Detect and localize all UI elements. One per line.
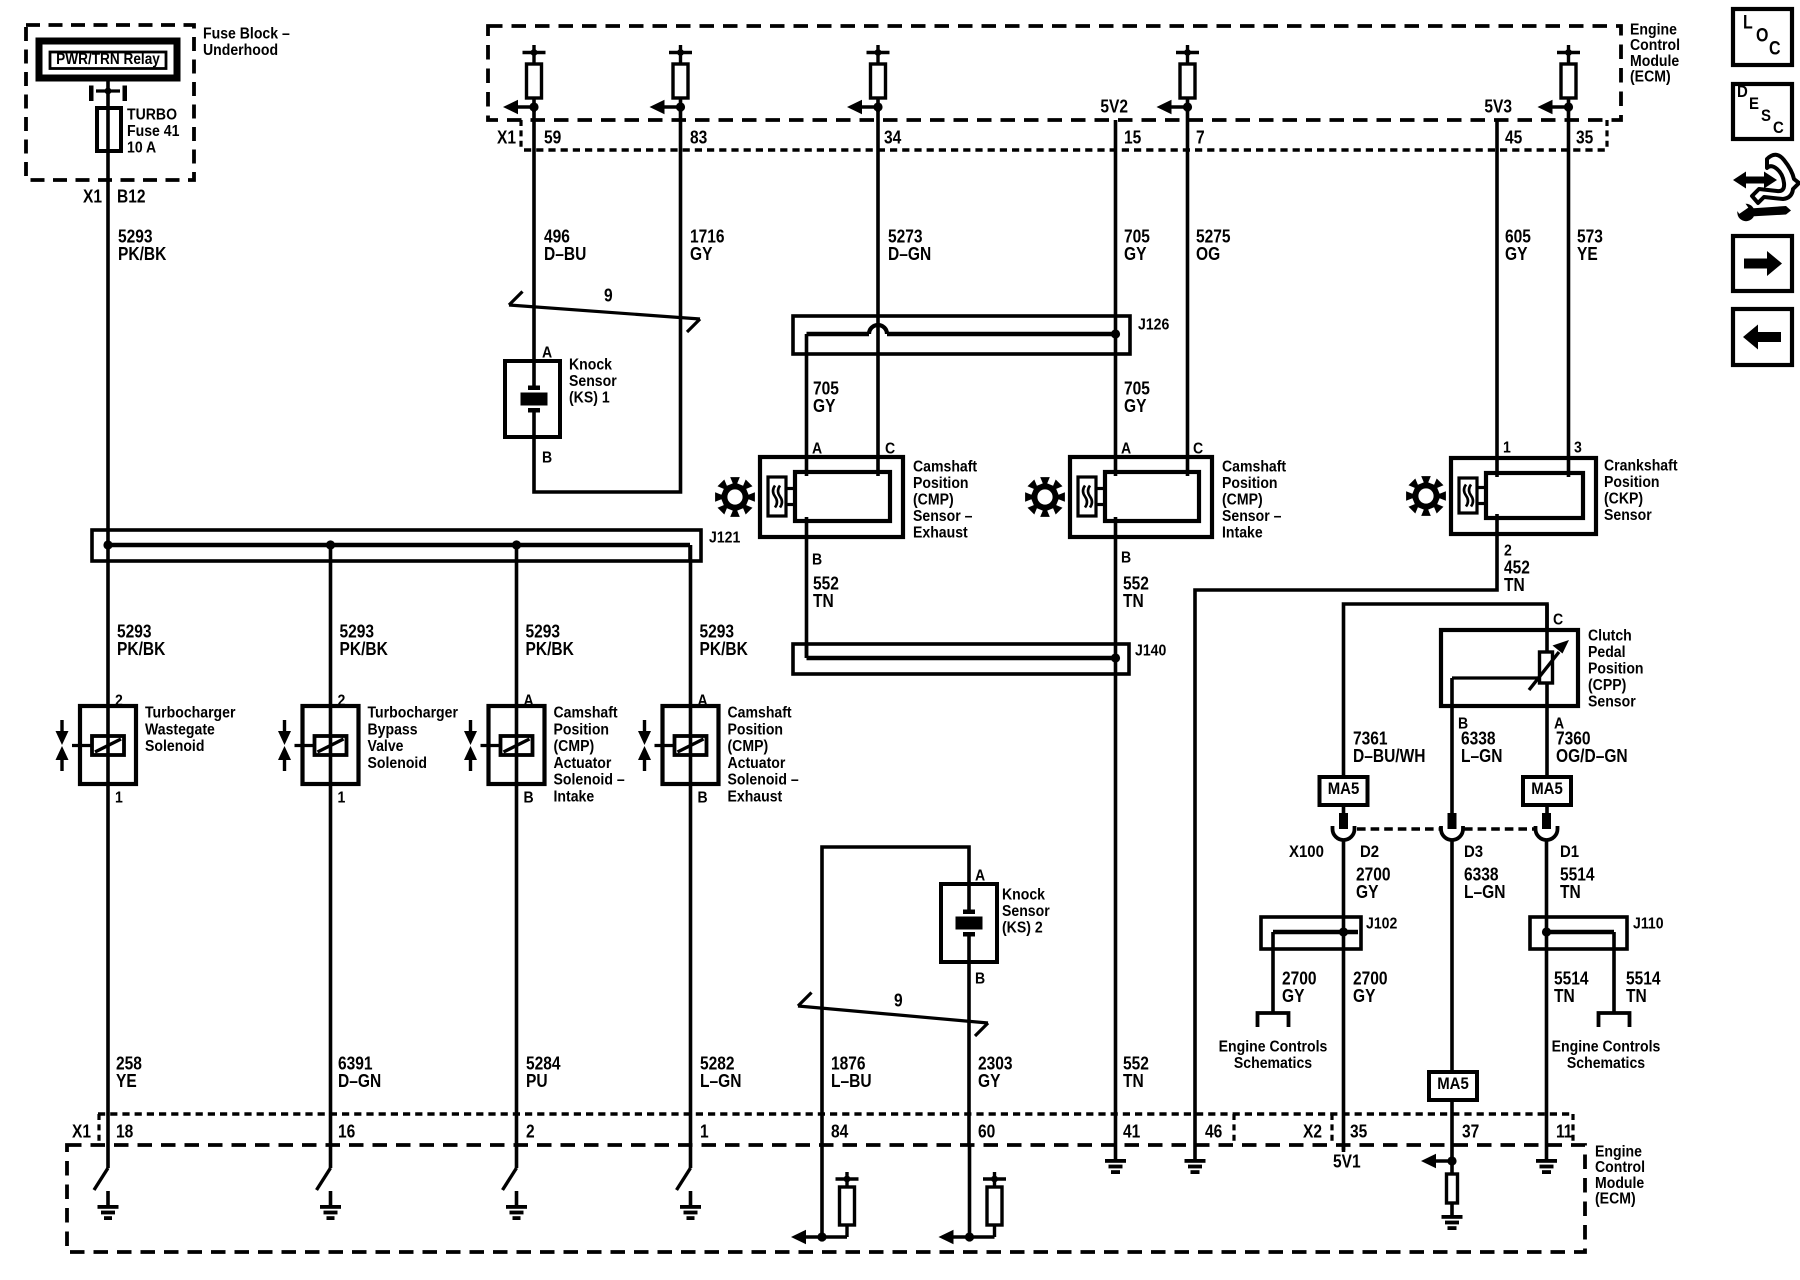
label D3 bbox=[1464, 843, 1483, 861]
label 5V3 bbox=[1484, 96, 1512, 117]
svg-text:(ECM): (ECM) bbox=[1595, 1190, 1636, 1208]
pin 35 label (ECM bottom) bbox=[1350, 1121, 1368, 1142]
svg-text:41: 41 bbox=[1123, 1121, 1141, 1142]
camshaft position CMP actuator solenoid intake bbox=[464, 692, 625, 807]
MA5 box (D3 wire) bbox=[1429, 1072, 1477, 1100]
svg-text:GY: GY bbox=[1282, 986, 1305, 1007]
ECM internal driver at pin 59 bbox=[503, 45, 546, 114]
wire 2700 GY X100 D2 to J102 and pin X2-35 bbox=[1344, 841, 1391, 1150]
clutch pedal position CPP sensor bbox=[1441, 604, 1644, 733]
svg-text:D: D bbox=[1737, 83, 1748, 101]
wire 5275 OG pin 7 to CMP intake C bbox=[1188, 107, 1232, 457]
wire 258 YE solenoid to pin 18 bbox=[108, 784, 142, 1145]
pin 83 label (ECM top) bbox=[690, 127, 707, 148]
svg-text:TN: TN bbox=[1504, 575, 1525, 596]
svg-text:GY: GY bbox=[1124, 396, 1147, 417]
svg-text:B12: B12 bbox=[117, 186, 146, 207]
svg-text:B: B bbox=[1121, 549, 1131, 567]
svg-text:Position: Position bbox=[728, 720, 784, 738]
svg-text:11: 11 bbox=[1556, 1121, 1573, 1142]
svg-text:Sensor –: Sensor – bbox=[1222, 507, 1281, 525]
ECM top connector pin row bbox=[521, 120, 1607, 150]
svg-text:PU: PU bbox=[526, 1071, 548, 1092]
svg-text:D–BU: D–BU bbox=[544, 244, 586, 265]
svg-text:Bypass: Bypass bbox=[368, 720, 418, 738]
ECM internal ground at x1115 bbox=[1105, 1145, 1126, 1174]
icon data link arrows and wrench bbox=[1733, 155, 1799, 221]
label D1 bbox=[1560, 843, 1579, 861]
ECM internal driver at pin 7 bbox=[1157, 45, 1200, 114]
off-page connector (right schematics) bbox=[1599, 1013, 1630, 1027]
pin 59 label (ECM top) bbox=[544, 127, 561, 148]
pin 41 label (ECM bottom) bbox=[1123, 1121, 1141, 1142]
svg-text:TN: TN bbox=[1560, 882, 1581, 903]
svg-text:D3: D3 bbox=[1464, 843, 1483, 861]
svg-text:PK/BK: PK/BK bbox=[340, 639, 389, 660]
ECM bottom connector pin row bbox=[98, 1114, 1573, 1145]
label Engine Control Module (ECM) top bbox=[1630, 21, 1680, 86]
svg-text:YE: YE bbox=[1577, 244, 1598, 265]
note 9 marker (KS1 wires) bbox=[509, 285, 700, 332]
pin 60 label (ECM bottom) bbox=[978, 1121, 995, 1142]
icon LOC bbox=[1733, 9, 1792, 65]
svg-text:GY: GY bbox=[978, 1071, 1001, 1092]
svg-text:B: B bbox=[542, 449, 552, 467]
wire 7360 OG/D-GN CPP A to MA5 bbox=[1547, 706, 1628, 777]
camshaft position CMP sensor intake bbox=[1070, 440, 1286, 567]
svg-text:2: 2 bbox=[338, 692, 346, 710]
engine control module ECM bottom dashed box bbox=[67, 1145, 1585, 1252]
svg-text:Schematics: Schematics bbox=[1234, 1054, 1312, 1072]
svg-text:A: A bbox=[812, 440, 822, 458]
ECM internal ground at x108 bbox=[94, 1145, 119, 1220]
svg-text:B: B bbox=[524, 789, 534, 807]
svg-text:Schematics: Schematics bbox=[1567, 1054, 1645, 1072]
svg-text:84: 84 bbox=[831, 1121, 849, 1142]
splice J121 bbox=[92, 529, 740, 561]
wire 6338 L-GN CPP B to X100 D3 bbox=[1452, 706, 1502, 813]
svg-text:C: C bbox=[1773, 119, 1784, 137]
wire 452 TN CKP 2 to pin 46 bbox=[1195, 534, 1530, 1145]
svg-text:YE: YE bbox=[116, 1071, 137, 1092]
svg-text:2: 2 bbox=[526, 1121, 535, 1142]
svg-text:X1: X1 bbox=[72, 1121, 91, 1142]
ECM internal pin 37 pull-down bbox=[1421, 1145, 1463, 1230]
gear icon (CMP intake) bbox=[1025, 477, 1065, 517]
svg-text:Wastegate: Wastegate bbox=[145, 720, 215, 738]
connector X100 terminal D3 bbox=[1441, 813, 1463, 840]
svg-text:D1: D1 bbox=[1560, 843, 1579, 861]
icon arrow left bbox=[1733, 309, 1792, 365]
svg-text:B: B bbox=[975, 970, 985, 988]
MA5 box (D2 wire) bbox=[1320, 777, 1368, 805]
wire 5282 L-GN solenoid to pin 1 bbox=[691, 784, 742, 1145]
label X2 (ECM bottom) bbox=[1303, 1121, 1322, 1142]
svg-text:(CMP): (CMP) bbox=[1222, 491, 1263, 509]
svg-text:TN: TN bbox=[1626, 986, 1647, 1007]
svg-text:C: C bbox=[885, 440, 895, 458]
relay PWR/TRN Relay bbox=[39, 41, 177, 78]
svg-text:(ECM): (ECM) bbox=[1630, 68, 1671, 86]
pin 35 label (ECM top) bbox=[1576, 127, 1594, 148]
splice J140 bbox=[793, 642, 1166, 674]
svg-text:C: C bbox=[1193, 440, 1203, 458]
svg-text:Solenoid: Solenoid bbox=[145, 737, 204, 755]
svg-text:C: C bbox=[1553, 611, 1563, 629]
note 9 marker (KS2 wires) bbox=[798, 990, 988, 1036]
svg-text:GY: GY bbox=[1353, 986, 1376, 1007]
svg-text:16: 16 bbox=[338, 1121, 355, 1142]
svg-text:1: 1 bbox=[115, 789, 123, 807]
svg-text:TN: TN bbox=[1554, 986, 1575, 1007]
knock sensor KS2 bbox=[941, 867, 1050, 988]
label Fuse Block - Underhood bbox=[203, 25, 290, 60]
fuse TURBO Fuse 41 10 A bbox=[97, 106, 179, 157]
svg-text:MA5: MA5 bbox=[1437, 1075, 1469, 1093]
gear icon (CKP) bbox=[1406, 476, 1446, 516]
svg-text:(CKP): (CKP) bbox=[1604, 490, 1643, 508]
svg-text:34: 34 bbox=[884, 127, 902, 148]
pin 37 label (ECM bottom) bbox=[1462, 1121, 1479, 1142]
svg-text:A: A bbox=[698, 692, 708, 710]
pin 34 label (ECM top) bbox=[884, 127, 902, 148]
svg-text:D2: D2 bbox=[1360, 843, 1379, 861]
svg-text:Turbocharger: Turbocharger bbox=[145, 704, 236, 722]
pin 2 label (ECM bottom) bbox=[526, 1121, 535, 1142]
svg-text:L–GN: L–GN bbox=[1461, 746, 1502, 767]
label Engine Controls Schematics left bbox=[1219, 1038, 1328, 1073]
svg-text:J102: J102 bbox=[1366, 915, 1397, 933]
wire 1716 GY pin 83 to KS1 B bbox=[534, 107, 725, 492]
label Engine Control Module (ECM) bottom bbox=[1595, 1143, 1645, 1208]
svg-text:PK/BK: PK/BK bbox=[526, 639, 575, 660]
fuse block - underhood dashed box bbox=[26, 25, 194, 180]
wire 2700 GY J102 branch to schematics bbox=[1273, 949, 1317, 1013]
svg-text:PK/BK: PK/BK bbox=[700, 639, 749, 660]
label D2 bbox=[1360, 843, 1379, 861]
wire 552 TN CMP exhaust B to J140 bbox=[807, 537, 839, 658]
camshaft position CMP sensor exhaust bbox=[760, 440, 977, 569]
label 5V2 bbox=[1100, 96, 1128, 117]
svg-text:Clutch: Clutch bbox=[1588, 627, 1632, 645]
wire 1876 L-BU KS2 A to pin 84 bbox=[822, 847, 969, 1145]
svg-text:Actuator: Actuator bbox=[728, 754, 786, 772]
svg-text:Solenoid: Solenoid bbox=[368, 754, 427, 772]
connector X100 terminal D1 bbox=[1536, 813, 1558, 840]
label 5V1 bbox=[1333, 1151, 1361, 1172]
svg-text:B: B bbox=[698, 789, 708, 807]
pin 16 label (ECM bottom) bbox=[338, 1121, 355, 1142]
MA5 box (D1 wire) bbox=[1523, 777, 1571, 805]
label wire 5293 PK/BK (fuse) bbox=[118, 226, 167, 264]
svg-text:5V1: 5V1 bbox=[1333, 1151, 1361, 1172]
off-page connector (left schematics) bbox=[1258, 1013, 1289, 1027]
svg-text:X1: X1 bbox=[83, 186, 102, 207]
svg-text:9: 9 bbox=[604, 285, 613, 306]
ECM internal pull-up at x822 bbox=[791, 1145, 859, 1244]
svg-text:Sensor: Sensor bbox=[569, 372, 617, 390]
wire 496 D-BU pin 59 to KS1 bbox=[534, 107, 586, 361]
svg-text:GY: GY bbox=[1356, 882, 1379, 903]
svg-text:(KS) 2: (KS) 2 bbox=[1002, 919, 1043, 937]
svg-text:Camshaft: Camshaft bbox=[554, 704, 618, 722]
ECM internal ground at x1546 bbox=[1536, 1145, 1557, 1174]
gear icon (CMP exhaust) bbox=[715, 477, 755, 517]
svg-text:Valve: Valve bbox=[368, 737, 404, 755]
svg-text:S: S bbox=[1761, 107, 1771, 125]
wire 5284 PU solenoid to pin 2 bbox=[517, 784, 562, 1145]
svg-text:L: L bbox=[1743, 11, 1753, 33]
svg-text:C: C bbox=[1769, 37, 1781, 59]
label X100 bbox=[1289, 843, 1324, 861]
svg-text:(CMP): (CMP) bbox=[554, 737, 595, 755]
svg-text:15: 15 bbox=[1124, 127, 1142, 148]
svg-text:TN: TN bbox=[813, 591, 834, 612]
pin 15 label (ECM top) bbox=[1124, 127, 1142, 148]
pin 1 label (ECM bottom) bbox=[700, 1121, 709, 1142]
svg-text:GY: GY bbox=[813, 396, 836, 417]
svg-text:5V3: 5V3 bbox=[1484, 96, 1512, 117]
pin 11 label (ECM bottom) bbox=[1556, 1121, 1573, 1142]
wire from relay through fuse to J121 bbox=[106, 75, 110, 530]
label X1 (ECM bottom) bbox=[72, 1121, 91, 1142]
svg-text:1: 1 bbox=[1503, 439, 1511, 457]
svg-text:Position: Position bbox=[554, 720, 610, 738]
svg-text:Sensor: Sensor bbox=[1002, 902, 1050, 920]
ECM internal pull-up at x969 bbox=[939, 1145, 1007, 1244]
wire 6338 L-GN X100 D3 to MA5 and pin 37 bbox=[1452, 841, 1505, 1145]
pin 84 label (ECM bottom) bbox=[831, 1121, 849, 1142]
svg-text:D–BU/WH: D–BU/WH bbox=[1353, 746, 1425, 767]
svg-text:L–GN: L–GN bbox=[700, 1071, 741, 1092]
splice J110 bbox=[1530, 915, 1664, 949]
svg-text:GY: GY bbox=[1124, 244, 1147, 265]
pin 45 label (ECM top) bbox=[1505, 127, 1523, 148]
svg-text:Actuator: Actuator bbox=[554, 754, 612, 772]
splice J102 bbox=[1261, 915, 1397, 949]
svg-text:59: 59 bbox=[544, 127, 561, 148]
svg-text:Position: Position bbox=[913, 474, 969, 492]
svg-text:A: A bbox=[524, 692, 534, 710]
svg-text:MA5: MA5 bbox=[1531, 780, 1563, 798]
svg-text:Knock: Knock bbox=[1002, 886, 1046, 904]
svg-text:(CPP): (CPP) bbox=[1588, 676, 1626, 694]
svg-text:PK/BK: PK/BK bbox=[117, 639, 166, 660]
svg-text:X100: X100 bbox=[1289, 843, 1324, 861]
svg-text:D–GN: D–GN bbox=[338, 1071, 381, 1092]
svg-text:9: 9 bbox=[894, 990, 903, 1011]
wire 552 TN CMP intake B through J140 to pin 41 bbox=[1116, 537, 1149, 1145]
svg-text:Position: Position bbox=[1222, 474, 1278, 492]
svg-text:B: B bbox=[812, 551, 822, 569]
ECM internal driver at pin 83 bbox=[650, 45, 693, 114]
wire stubs MA5 to X100 bbox=[1344, 805, 1548, 813]
svg-text:Solenoid –: Solenoid – bbox=[728, 771, 799, 789]
knock sensor KS1 bbox=[505, 344, 617, 467]
svg-text:Exhaust: Exhaust bbox=[728, 788, 783, 806]
svg-text:Intake: Intake bbox=[1222, 524, 1263, 542]
svg-text:1: 1 bbox=[338, 789, 346, 807]
svg-text:Position: Position bbox=[1588, 660, 1644, 678]
ECM internal ground at x330 bbox=[317, 1145, 342, 1220]
connector X100 terminal D2 bbox=[1333, 813, 1355, 840]
svg-text:J121: J121 bbox=[709, 529, 740, 547]
svg-text:PWR/TRN Relay: PWR/TRN Relay bbox=[56, 51, 161, 68]
camshaft position CMP actuator solenoid exhaust bbox=[638, 692, 799, 807]
svg-text:OG/D–GN: OG/D–GN bbox=[1556, 746, 1628, 767]
svg-text:D–GN: D–GN bbox=[888, 244, 931, 265]
wire 7361 D-BU/WH CPP C to X100 D2 bbox=[1344, 604, 1548, 777]
svg-text:A: A bbox=[975, 867, 985, 885]
inline connector X100 dashed line bbox=[1357, 827, 1534, 831]
wire 705 GY pin 15 to J126 and CMP intake A bbox=[1116, 120, 1151, 457]
svg-text:GY: GY bbox=[690, 244, 713, 265]
svg-text:37: 37 bbox=[1462, 1121, 1479, 1142]
turbocharger bypass valve solenoid bbox=[278, 692, 458, 807]
svg-text:PK/BK: PK/BK bbox=[118, 244, 167, 265]
wire 2303 GY KS2 B to pin 60 bbox=[969, 962, 1013, 1145]
svg-text:10 A: 10 A bbox=[127, 139, 156, 157]
fuse block pin X1 B12 bbox=[83, 186, 146, 207]
wire 5293 PK/BK J121 to solenoid 1 bbox=[108, 530, 166, 706]
svg-text:(CMP): (CMP) bbox=[728, 737, 769, 755]
svg-text:35: 35 bbox=[1350, 1121, 1368, 1142]
svg-text:L–GN: L–GN bbox=[1464, 882, 1505, 903]
svg-text:Exhaust: Exhaust bbox=[913, 524, 968, 542]
svg-text:Fuse Block –: Fuse Block – bbox=[203, 25, 290, 43]
svg-text:E: E bbox=[1749, 95, 1759, 113]
wire 605 GY pin 45 to CKP 1 bbox=[1497, 120, 1531, 458]
svg-text:35: 35 bbox=[1576, 127, 1594, 148]
wire 705 GY J126 to CMP exhaust A bbox=[807, 354, 840, 457]
crankshaft position CKP sensor bbox=[1451, 439, 1678, 534]
svg-text:L–BU: L–BU bbox=[831, 1071, 872, 1092]
svg-text:TN: TN bbox=[1123, 591, 1144, 612]
wire 5293 PK/BK J121 to solenoid 4 bbox=[691, 545, 749, 706]
svg-text:Sensor: Sensor bbox=[1588, 693, 1636, 711]
label X1 (ECM top) bbox=[497, 127, 516, 148]
svg-text:83: 83 bbox=[690, 127, 707, 148]
svg-text:(CMP): (CMP) bbox=[913, 491, 954, 509]
svg-text:Crankshaft: Crankshaft bbox=[1604, 457, 1678, 475]
svg-text:18: 18 bbox=[116, 1121, 133, 1142]
pin 7 label (ECM top) bbox=[1196, 127, 1205, 148]
svg-text:2: 2 bbox=[115, 692, 123, 710]
wire 573 YE pin 35 to CKP 3 bbox=[1569, 107, 1603, 458]
svg-text:Camshaft: Camshaft bbox=[1222, 458, 1286, 476]
svg-text:60: 60 bbox=[978, 1121, 995, 1142]
svg-text:1: 1 bbox=[700, 1121, 709, 1142]
svg-text:X1: X1 bbox=[497, 127, 516, 148]
svg-text:Turbocharger: Turbocharger bbox=[368, 704, 459, 722]
ECM internal ground at x690 bbox=[677, 1145, 702, 1220]
label Engine Controls Schematics right bbox=[1552, 1038, 1661, 1073]
svg-text:TN: TN bbox=[1123, 1071, 1144, 1092]
wire 6391 D-GN solenoid to pin 16 bbox=[331, 784, 382, 1145]
svg-text:Knock: Knock bbox=[569, 356, 613, 374]
svg-text:45: 45 bbox=[1505, 127, 1523, 148]
relay output terminal bbox=[89, 86, 127, 102]
pin 18 label (ECM bottom) bbox=[116, 1121, 133, 1142]
svg-text:Fuse 41: Fuse 41 bbox=[127, 122, 179, 140]
ECM internal driver at pin 34 bbox=[847, 45, 890, 114]
svg-text:A: A bbox=[542, 344, 552, 362]
icon arrow right bbox=[1733, 236, 1792, 291]
svg-text:GY: GY bbox=[1505, 244, 1528, 265]
svg-text:(KS) 1: (KS) 1 bbox=[569, 389, 610, 407]
wire 5293 PK/BK J121 to solenoid 2 bbox=[331, 545, 389, 706]
ECM internal driver at pin 35 bbox=[1538, 45, 1581, 114]
svg-text:46: 46 bbox=[1205, 1121, 1222, 1142]
wire 5514 TN J110 branch to schematics bbox=[1614, 949, 1661, 1013]
svg-text:Pedal: Pedal bbox=[1588, 643, 1626, 661]
svg-text:X2: X2 bbox=[1303, 1121, 1322, 1142]
svg-text:J110: J110 bbox=[1633, 915, 1664, 933]
svg-text:OG: OG bbox=[1196, 244, 1220, 265]
svg-text:Engine Controls: Engine Controls bbox=[1552, 1038, 1661, 1056]
turbocharger wastegate solenoid bbox=[56, 692, 236, 807]
engine control module ECM top dashed box bbox=[488, 26, 1621, 120]
svg-text:J126: J126 bbox=[1138, 316, 1169, 334]
svg-text:A: A bbox=[1121, 440, 1131, 458]
ECM internal ground at x516 bbox=[503, 1145, 528, 1220]
svg-text:Camshaft: Camshaft bbox=[913, 458, 977, 476]
svg-text:Sensor –: Sensor – bbox=[913, 507, 972, 525]
svg-text:MA5: MA5 bbox=[1328, 780, 1360, 798]
svg-text:Intake: Intake bbox=[554, 788, 595, 806]
ECM internal ground at x1195 bbox=[1185, 1145, 1206, 1174]
splice J126 bbox=[793, 316, 1169, 354]
svg-text:Sensor: Sensor bbox=[1604, 506, 1652, 524]
svg-text:Solenoid –: Solenoid – bbox=[554, 771, 625, 789]
svg-text:Position: Position bbox=[1604, 473, 1660, 491]
pin 46 label (ECM bottom) bbox=[1205, 1121, 1222, 1142]
svg-text:Camshaft: Camshaft bbox=[728, 704, 792, 722]
svg-text:J140: J140 bbox=[1135, 642, 1166, 660]
ECM internal 5V1 stub pin 35 bbox=[1342, 1145, 1346, 1152]
svg-text:5V2: 5V2 bbox=[1100, 96, 1128, 117]
wire 5273 D-GN pin 34 to CMP exhaust C bbox=[878, 107, 931, 457]
svg-text:3: 3 bbox=[1574, 439, 1582, 457]
wire 5514 TN X100 D1 to J110 and pin 11 bbox=[1547, 841, 1596, 1145]
svg-text:TURBO: TURBO bbox=[127, 106, 177, 124]
svg-text:Underhood: Underhood bbox=[203, 41, 278, 59]
svg-text:7: 7 bbox=[1196, 127, 1205, 148]
wire 5293 PK/BK J121 to solenoid 3 bbox=[517, 545, 575, 706]
svg-text:Engine Controls: Engine Controls bbox=[1219, 1038, 1328, 1056]
svg-text:O: O bbox=[1756, 24, 1768, 46]
icon DESC bbox=[1733, 83, 1792, 139]
